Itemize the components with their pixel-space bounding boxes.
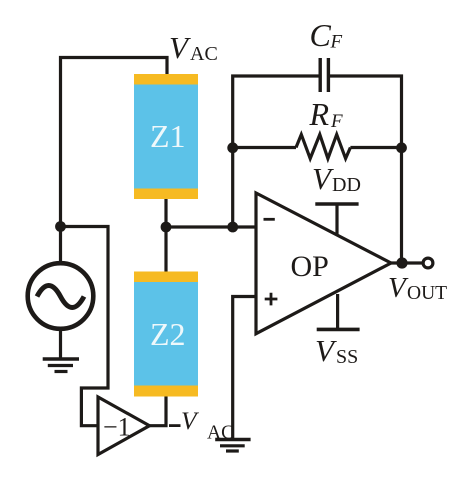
wire source bottom to ground <box>59 328 62 359</box>
svg-text:−1: −1 <box>103 413 131 442</box>
power VSS <box>317 294 360 329</box>
label -VAC <box>169 406 234 444</box>
node source top <box>55 221 66 232</box>
node resistor left <box>227 142 238 153</box>
node junction Z1-Z2 <box>161 222 172 233</box>
svg-text:R: R <box>309 96 330 132</box>
node output <box>396 257 407 268</box>
svg-text:AC: AC <box>190 43 218 65</box>
ground source <box>43 359 79 372</box>
wire resistor right <box>350 146 401 149</box>
wire node to inverter input (staircase) <box>61 227 109 426</box>
node resistor right <box>396 142 407 153</box>
node feedback tap <box>227 222 238 233</box>
power VDD <box>315 204 358 234</box>
wire top VAC net <box>61 58 168 229</box>
svg-text:F: F <box>330 111 343 132</box>
label VOUT <box>388 272 447 304</box>
impedance Z2 <box>134 272 198 397</box>
wire inverting input row <box>166 225 256 228</box>
svg-text:C: C <box>310 17 332 53</box>
wire Z1 bottom to inverting node <box>164 199 167 227</box>
label RF <box>309 96 344 132</box>
label CF <box>310 17 343 53</box>
op-amp OP <box>256 193 391 334</box>
svg-text:Z2: Z2 <box>150 316 186 352</box>
inverter A1 gain -1 <box>98 397 150 455</box>
wire output <box>391 261 423 264</box>
wire resistor row left <box>233 146 296 149</box>
ground noninverting <box>215 440 250 452</box>
wire source to node <box>59 227 62 265</box>
svg-text:Z1: Z1 <box>150 118 186 154</box>
label VAC <box>169 30 218 65</box>
resistor RF <box>296 135 350 159</box>
label VSS <box>315 333 358 368</box>
svg-text:SS: SS <box>336 346 358 368</box>
wire capacitor right <box>328 76 401 263</box>
wire noninverting input <box>233 297 256 440</box>
capacitor CF <box>320 58 328 92</box>
wire Z2 top <box>164 227 167 272</box>
svg-text:V: V <box>388 272 409 304</box>
svg-text:DD: DD <box>332 174 361 196</box>
svg-text:V: V <box>169 30 191 65</box>
wire feedback left vertical <box>233 76 320 227</box>
wire Z2 bottom to inverter output <box>150 397 167 426</box>
svg-text:V: V <box>312 161 334 196</box>
svg-text:V: V <box>315 333 337 368</box>
AC source V1 <box>28 263 94 329</box>
svg-text:OUT: OUT <box>407 283 447 304</box>
svg-text:V: V <box>181 406 200 435</box>
impedance Z1 <box>134 74 198 199</box>
label VDD <box>312 161 361 196</box>
svg-text:OP: OP <box>291 250 329 283</box>
terminal VOUT <box>423 258 433 268</box>
svg-text:F: F <box>330 32 343 53</box>
